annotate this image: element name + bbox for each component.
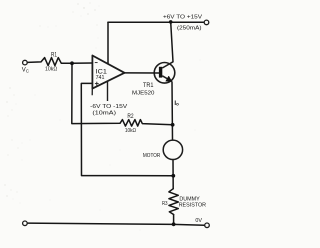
svg-text:10kΩ: 10kΩ xyxy=(125,128,136,134)
svg-text:(10mA): (10mA) xyxy=(92,110,116,116)
svg-text:DUMMY: DUMMY xyxy=(179,196,200,202)
svg-text:Io: Io xyxy=(174,100,179,107)
svg-text:10kΩ: 10kΩ xyxy=(45,66,57,72)
svg-text:(250mA): (250mA) xyxy=(177,25,202,31)
svg-text:MOTOR: MOTOR xyxy=(143,153,160,159)
svg-text:R3: R3 xyxy=(162,201,168,207)
svg-text:741: 741 xyxy=(96,75,105,81)
svg-text:VC: VC xyxy=(22,68,29,74)
svg-text:MJE520: MJE520 xyxy=(132,90,154,96)
svg-text:RESISTOR: RESISTOR xyxy=(179,203,206,209)
svg-text:0V: 0V xyxy=(195,218,202,224)
svg-text:TR1: TR1 xyxy=(143,83,154,89)
svg-text:-6V TO -15V: -6V TO -15V xyxy=(90,104,127,110)
svg-text:R1: R1 xyxy=(51,52,58,58)
svg-text:R2: R2 xyxy=(127,114,134,120)
svg-text:+6V TO +15V: +6V TO +15V xyxy=(163,14,202,20)
